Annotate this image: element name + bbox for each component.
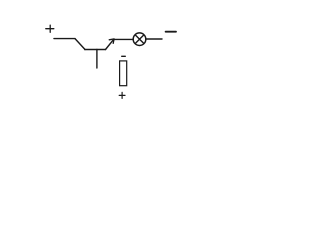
label + (battery bottom terminal) <box>119 92 125 98</box>
transistor Q1 emitter diagonal with arrow <box>106 39 115 50</box>
label - (battery top terminal) <box>122 55 126 57</box>
transistor Q1 base bar <box>85 49 106 51</box>
transistor Q1 collector diagonal <box>75 39 85 50</box>
transistor Q1 base lead <box>96 50 98 69</box>
lamp L1 <box>133 33 146 46</box>
wire (lamp to right terminal) <box>146 38 162 40</box>
label + (left supply terminal) <box>46 25 54 32</box>
wire (left horizontal from + terminal) <box>54 38 75 40</box>
wire (emitter to lamp) <box>114 38 133 40</box>
label - (right supply terminal) <box>166 31 176 33</box>
battery B1 (cell rectangle) <box>120 61 127 86</box>
